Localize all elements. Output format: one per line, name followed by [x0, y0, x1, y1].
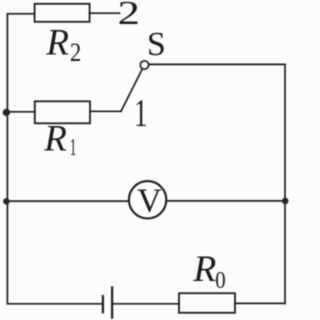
svg-text:1: 1: [70, 135, 77, 161]
svg-text:1: 1: [134, 91, 147, 134]
svg-text:R: R: [43, 118, 67, 159]
wire bottom-left to battery: [7, 303, 101, 305]
wire R2 to terminal 2: [90, 12, 120, 14]
wire left vertical to R1: [7, 111, 34, 113]
battery long plate (positive): [111, 287, 113, 317]
wire right vertical: [284, 64, 286, 303]
wire left vertical: [6, 14, 8, 304]
svg-text:R: R: [45, 23, 69, 64]
junction node middle-right: [282, 198, 289, 205]
svg-text:S: S: [147, 26, 166, 63]
resistor R1: [35, 101, 90, 123]
resistor R0: [179, 293, 235, 313]
svg-text:R: R: [192, 249, 216, 290]
wire R0 to bottom-right corner: [235, 302, 285, 304]
wire switch to top-right corner: [149, 63, 285, 65]
svg-text:0: 0: [215, 266, 225, 293]
junction node at left R1 tap: [3, 109, 10, 116]
switch S pivot circle: [140, 61, 148, 69]
svg-text:2: 2: [70, 39, 81, 68]
wire battery to R0: [113, 303, 179, 305]
svg-text:2: 2: [118, 0, 140, 32]
voltmeter V circle: [129, 181, 166, 218]
wire middle left segment: [7, 200, 129, 202]
svg-text:V: V: [137, 182, 162, 219]
wire top-left corner to R2: [7, 13, 34, 15]
junction node middle-left: [3, 198, 10, 205]
resistor R2: [35, 4, 90, 22]
switch S blade: [121, 69, 142, 111]
wire R1 to switch throw 1: [90, 110, 121, 112]
battery short plate (negative): [102, 296, 104, 312]
wire middle right segment: [167, 200, 286, 202]
